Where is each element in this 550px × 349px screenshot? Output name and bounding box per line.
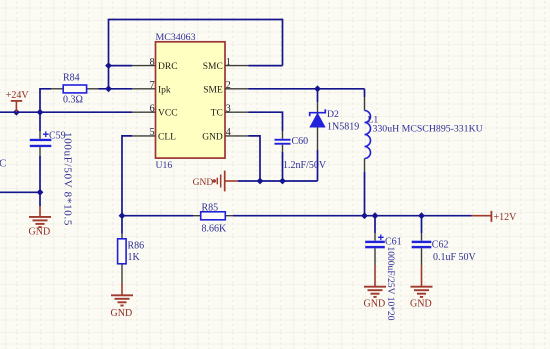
wire VCC rail down to C59 [39,112,41,131]
svg-text:1000uF/25V 10*20: 1000uF/25V 10*20 [385,247,395,321]
svg-text:0.1uF 50V: 0.1uF 50V [433,252,477,263]
svg-text:3: 3 [226,104,231,115]
wire output rail right [233,215,472,217]
node junction C61 [372,212,379,219]
pin 8 DRC [132,65,156,67]
inductor L1 [365,89,371,216]
svg-text:7: 7 [150,80,155,91]
wire down to gnd [39,192,41,206]
svg-text:GND: GND [410,299,432,310]
svg-text:Ipk: Ipk [158,85,171,95]
wire CLL pin down to feedback node [122,136,132,216]
power port +24V [6,90,30,112]
svg-text:U16: U16 [156,160,173,171]
svg-text:C60: C60 [292,136,309,147]
node junction C62 [418,212,425,219]
pin 7 Ipk [132,88,156,90]
resistor R84 [51,85,99,93]
resistor R86 [118,216,127,295]
node junction D2 [314,85,321,92]
ground GND (C61) [364,287,386,297]
capacitor C59 [30,131,52,147]
wire C60 bottom to gnd rail [282,145,284,152]
wire SMC pin to top loop [249,65,283,67]
capacitor C60 [275,139,291,145]
svg-text:R84: R84 [63,73,80,84]
power port +12V [472,211,518,223]
svg-text:GND: GND [29,227,51,238]
pin 3 TC [225,111,249,113]
ground GND (C59) [29,217,51,227]
node junction L1 out [361,212,368,219]
ground GND (R86) [111,295,133,305]
svg-text:R85: R85 [202,203,219,214]
svg-text:GND: GND [111,308,133,319]
svg-text:GND: GND [202,132,223,142]
svg-text:VCC: VCC [158,109,178,119]
node junction C60 gnd [279,178,286,185]
node junction feedback [119,212,126,219]
svg-text:8: 8 [150,57,155,68]
node junction Ipk [105,85,112,92]
pin 5 CLL [132,135,156,137]
node junction +24V [13,109,20,116]
wire top loop from DRC node to SMC pin [109,20,283,90]
svg-text:5: 5 [150,127,155,138]
svg-text:1: 1 [226,57,231,68]
svg-text:1K: 1K [128,252,141,263]
svg-text:SMC: SMC [203,62,223,72]
svg-text:CLL: CLL [158,132,176,142]
wire left rail [0,191,40,193]
svg-text:1N5819: 1N5819 [327,121,359,132]
capacitor C61 [365,216,385,287]
svg-text:+12V: +12V [494,212,518,223]
power ground GND bar symbol [213,171,238,192]
svg-text:C62: C62 [432,240,449,251]
ground GND (C62) [411,287,433,297]
wire GND pin down to gnd rail [249,136,261,181]
svg-text:TC: TC [211,109,223,119]
svg-text:GND: GND [364,299,386,310]
svg-text:SME: SME [203,85,223,95]
wire +24V VCC rail [0,111,132,113]
node junction C59 gnd [37,189,44,196]
svg-text:R86: R86 [128,241,145,252]
svg-text:DRC: DRC [158,62,178,72]
pin 1 SMC [225,65,249,67]
wire SME pin to L1 [249,88,365,90]
svg-text:C: C [0,157,6,169]
svg-text:MC34063: MC34063 [156,32,196,43]
svg-text:D2: D2 [327,109,339,120]
wire DRC pin 8 to node [109,65,133,67]
svg-text:330uH MCSCH895-331KU: 330uH MCSCH895-331KU [373,123,483,134]
svg-text:0.3Ω: 0.3Ω [63,95,83,106]
wire C59 bottom to GND rail [39,147,41,156]
wire gnd rail [238,180,318,182]
op IC U16 MC34063 [156,42,226,158]
node junction DRC [105,62,112,69]
svg-text:6: 6 [150,104,155,115]
svg-text:4: 4 [226,127,231,138]
capacitor C62 [412,216,432,287]
node junction gnd rail [257,178,264,185]
wire TC pin down to C60 [249,112,283,131]
pin 2 SME [225,88,249,90]
pin 4 GND [225,135,249,137]
wire output rail [122,215,193,217]
svg-text:GND: GND [193,178,214,188]
diode D2 1N5819 [310,89,326,181]
wire R84 to Ipk pin [99,88,133,90]
resistor R85 [193,212,233,220]
svg-text:+24V: +24V [6,90,30,101]
wire R84 left elbow to VCC rail [40,89,51,112]
svg-text:2: 2 [226,80,231,91]
svg-text:1.2nF/50V: 1.2nF/50V [283,160,327,171]
pin 6 VCC [132,111,156,113]
svg-text:8.66K: 8.66K [202,223,228,234]
svg-text:100uF/50V 8*10.5: 100uF/50V 8*10.5 [62,132,74,226]
node junction C59/R84 [37,109,44,116]
